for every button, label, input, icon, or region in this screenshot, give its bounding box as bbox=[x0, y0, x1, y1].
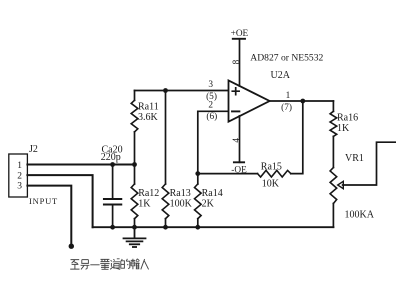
resistor Ra14 bbox=[195, 174, 202, 228]
svg-text:1K: 1K bbox=[337, 123, 350, 134]
ground symbol bbox=[124, 227, 146, 247]
junction dot cap bottom bbox=[110, 225, 115, 230]
svg-text:+OE: +OE bbox=[231, 29, 249, 39]
char ling bbox=[81, 260, 90, 270]
svg-text:J2: J2 bbox=[29, 144, 38, 155]
svg-text:VR1: VR1 bbox=[345, 153, 364, 164]
connector J2 bbox=[9, 154, 28, 197]
wire J2 pin3 to other channel stub bbox=[27, 186, 71, 244]
svg-text:1K: 1K bbox=[138, 198, 151, 209]
+OE supply tick bbox=[233, 38, 245, 40]
svg-text:100K: 100K bbox=[170, 198, 193, 209]
junction dot Ra13 top bbox=[163, 88, 168, 93]
wire pin 8 positive supply bbox=[239, 39, 241, 86]
junction dot Ca20 top bbox=[110, 162, 115, 167]
svg-text:2: 2 bbox=[208, 101, 213, 111]
svg-text:2: 2 bbox=[17, 171, 22, 181]
svg-text:1: 1 bbox=[17, 161, 22, 171]
-OE supply tick bbox=[234, 161, 244, 163]
resistor Ra11 bbox=[131, 91, 138, 165]
svg-text:Ra11: Ra11 bbox=[138, 102, 159, 113]
capacitor Ca20 bbox=[104, 165, 121, 228]
wire wiper output bbox=[343, 142, 396, 185]
feedback node junction dot bbox=[195, 171, 200, 176]
svg-text:1: 1 bbox=[286, 91, 291, 101]
wire J2 pin1 to node A bbox=[27, 164, 134, 166]
svg-text:(6): (6) bbox=[206, 111, 217, 122]
svg-text:Ra15: Ra15 bbox=[261, 161, 282, 172]
wire pin 4 negative supply bbox=[239, 116, 241, 163]
svg-text:U2A: U2A bbox=[271, 70, 291, 81]
ground rail wire bbox=[93, 226, 334, 228]
resistor Ra12 bbox=[131, 165, 138, 228]
wire op-amp output bbox=[270, 100, 334, 102]
char shu bbox=[131, 259, 140, 269]
svg-text:4: 4 bbox=[232, 138, 242, 143]
svg-text:3: 3 bbox=[208, 80, 213, 90]
svg-text:10K: 10K bbox=[262, 178, 280, 189]
wire op-amp pin2 to feedback node bbox=[198, 111, 229, 173]
resistor Ra15 bbox=[198, 170, 291, 177]
svg-text:(7): (7) bbox=[281, 102, 292, 113]
output junction dot bbox=[300, 99, 305, 104]
char yi bbox=[90, 264, 99, 266]
char sheng bbox=[100, 259, 109, 269]
op-amp U2A bbox=[229, 80, 270, 121]
svg-text:2K: 2K bbox=[202, 198, 215, 209]
wire output down to feedback line bbox=[291, 101, 303, 174]
resistor Ra13 bbox=[162, 91, 169, 228]
svg-text:INPUT: INPUT bbox=[29, 196, 58, 206]
svg-text:100KA: 100KA bbox=[345, 210, 375, 221]
svg-text:8: 8 bbox=[232, 59, 242, 64]
node dot to other channel bbox=[69, 244, 74, 249]
char ru bbox=[141, 259, 149, 269]
chinese note: to the other channel input bbox=[70, 259, 148, 270]
junction dot Ra13 bottom bbox=[163, 225, 168, 230]
char dao bbox=[110, 259, 120, 270]
svg-text:AD827 or NE5532: AD827 or NE5532 bbox=[250, 52, 323, 63]
potentiometer VR1 bbox=[330, 168, 337, 228]
svg-text:Ra16: Ra16 bbox=[337, 113, 358, 124]
svg-text:3.6K: 3.6K bbox=[138, 112, 159, 123]
resistor Ra16 bbox=[330, 101, 337, 168]
svg-text:220p: 220p bbox=[101, 152, 121, 163]
char de bbox=[121, 259, 130, 269]
node A junction dot bbox=[132, 162, 137, 167]
wire pin3 rail (op-amp + input) bbox=[135, 90, 229, 92]
op-amp minus input marking bbox=[232, 110, 239, 112]
svg-text:3: 3 bbox=[17, 182, 22, 192]
op-amp plus input marking bbox=[232, 88, 239, 95]
VR1 wiper arrow bbox=[338, 181, 344, 188]
junction dot Ra12 bottom bbox=[132, 225, 137, 230]
junction dot Ra14 bottom bbox=[195, 225, 200, 230]
char zhi bbox=[70, 260, 79, 270]
wire J2 pin2 to ground rail bbox=[27, 175, 92, 227]
